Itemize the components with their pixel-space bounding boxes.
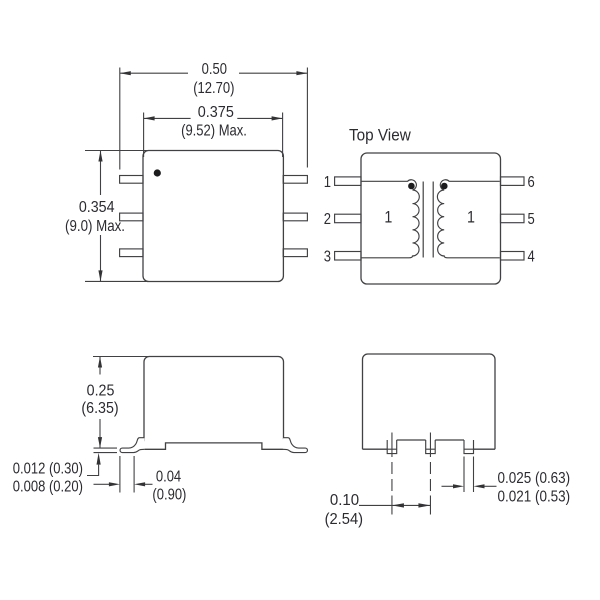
body outline (front view) <box>363 354 496 449</box>
dimension 0.04 extension line left <box>119 456 121 493</box>
body bottom edge segments <box>363 440 496 449</box>
svg-text:3: 3 <box>324 248 331 265</box>
dimension 0.354 extension line bottom <box>85 280 149 282</box>
svg-text:0.375: 0.375 <box>198 104 234 122</box>
core line 1 <box>422 182 424 258</box>
pin (left row 2) <box>120 213 143 221</box>
svg-text:0.012 (0.30): 0.012 (0.30) <box>13 460 83 477</box>
svg-text:(12.70): (12.70) <box>193 80 234 97</box>
dimension 0.354 arrowhead down <box>98 270 102 281</box>
pin (left row 3) <box>120 249 143 257</box>
svg-text:(9.0) Max.: (9.0) Max. <box>65 218 125 235</box>
package body outline U1 (top view) <box>143 151 283 282</box>
svg-text:0.021 (0.53): 0.021 (0.53) <box>498 489 571 506</box>
body outline (side view) <box>144 357 284 442</box>
dimension 0.375 line <box>144 117 283 119</box>
dimension 0.025 arrow right (pointing left) <box>485 485 497 487</box>
dimension 0.25 arrowhead down (lead top) <box>98 437 102 448</box>
dimension 0.375 arrowhead left <box>144 116 155 120</box>
svg-text:0.025 (0.63): 0.025 (0.63) <box>498 470 571 487</box>
svg-text:1: 1 <box>324 174 331 191</box>
dimension 0.25 extension line top <box>93 356 149 358</box>
pin (right row 2) <box>283 213 307 221</box>
pin 6 (right) <box>501 177 525 186</box>
package body outline (schematic) <box>361 153 501 284</box>
dimension 0.375 extension line left <box>143 113 145 158</box>
svg-text:0.008 (0.20): 0.008 (0.20) <box>13 479 83 496</box>
pin 3 (front, left) <box>387 440 397 454</box>
dimension 0.50 extension line right <box>306 68 308 168</box>
winding W2 (right coil, pins 6-4) <box>437 180 499 258</box>
dimension 0.354 line <box>100 151 102 282</box>
dimension 0.50 line <box>120 72 308 74</box>
dimension 0.354 extension line top <box>85 150 149 152</box>
body bottom profile with standoffs <box>145 443 284 449</box>
svg-text:Top View: Top View <box>349 126 411 145</box>
dimension 0.025 extension line left <box>463 457 465 493</box>
svg-text:(0.90): (0.90) <box>152 487 186 504</box>
svg-text:0.04: 0.04 <box>156 468 181 485</box>
svg-text:(6.35): (6.35) <box>81 401 118 418</box>
svg-text:4: 4 <box>528 248 535 265</box>
pin (right row 1) <box>283 176 307 184</box>
pin (left row 1) <box>120 176 143 184</box>
dimension 0.025 arrow left (pointing right) <box>442 485 454 487</box>
pin 1 (front, right) <box>464 440 474 454</box>
dimension 0.04 arrow right (pointing left) <box>145 483 153 485</box>
pin 1 index dot <box>154 169 161 176</box>
dimension 0.50 arrowhead left <box>120 71 131 75</box>
dimension 0.025 extension line right <box>473 457 475 493</box>
gull-wing lead (left) <box>120 438 145 453</box>
pin 3 (left) <box>335 252 361 261</box>
polarity dot W1 <box>408 183 415 190</box>
svg-text:5: 5 <box>528 211 535 228</box>
dimension 0.50 arrowhead right <box>296 71 307 75</box>
dimension 0.04 extension line right <box>133 456 135 493</box>
dimension 0.10 line with tail <box>359 504 430 506</box>
dimension 0.04 arrow left (pointing right) <box>94 483 110 485</box>
pin 2 (left) <box>335 214 361 223</box>
dimension 0.375 arrowhead right <box>272 116 283 120</box>
core line 2 <box>432 182 434 258</box>
svg-text:6: 6 <box>528 174 535 191</box>
svg-text:0.25: 0.25 <box>87 383 115 400</box>
pin 1 (left) <box>335 177 361 186</box>
dimension 0.25 arrowhead up <box>98 357 102 368</box>
winding W1 (left coil, pins 1-3) <box>362 180 420 258</box>
svg-text:1: 1 <box>384 209 392 227</box>
dimension 0.50 extension line left <box>119 68 121 170</box>
dimension 0.354 arrowhead up <box>98 151 102 162</box>
pin (right row 3) <box>283 249 307 257</box>
svg-text:2: 2 <box>324 211 331 228</box>
center line through left pin <box>391 433 393 515</box>
svg-text:(2.54): (2.54) <box>325 511 363 528</box>
svg-text:0.10: 0.10 <box>330 492 359 509</box>
svg-text:0.50: 0.50 <box>202 61 227 78</box>
lead top surface extension line <box>94 447 118 449</box>
center line through middle pin <box>429 433 431 515</box>
pin 2 (front, middle) <box>426 440 436 454</box>
dimension 0.10 arrowhead left (pointing left) <box>392 503 404 507</box>
lead bottom surface extension line <box>94 452 118 454</box>
polarity dot W2 <box>441 183 448 190</box>
gull-wing lead (right) <box>283 438 308 453</box>
svg-text:0.354: 0.354 <box>79 200 115 217</box>
dimension 0.375 extension line right <box>282 113 284 158</box>
dimension 0.10 arrowhead right (pointing right) <box>418 503 430 507</box>
lead thickness arrowhead up with leader <box>87 465 99 476</box>
svg-text:(9.52) Max.: (9.52) Max. <box>181 122 247 139</box>
pin 4 (right) <box>501 252 525 261</box>
svg-text:1: 1 <box>467 209 475 227</box>
dimension 0.25 line <box>99 357 101 449</box>
pin 5 (right) <box>501 214 525 223</box>
